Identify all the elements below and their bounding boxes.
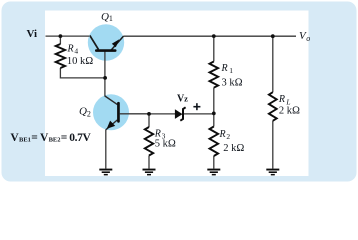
svg-text:BE1: BE1: [19, 136, 31, 143]
svg-text:2 kΩ: 2 kΩ: [223, 143, 244, 154]
svg-text:R: R: [67, 44, 74, 55]
svg-text:3 kΩ: 3 kΩ: [222, 77, 243, 88]
svg-text:Q: Q: [101, 11, 109, 23]
svg-text:R: R: [221, 63, 228, 74]
svg-text:1: 1: [109, 14, 113, 23]
svg-text:Q: Q: [79, 105, 87, 117]
svg-text:2 kΩ: 2 kΩ: [279, 105, 300, 116]
svg-text:R: R: [278, 94, 285, 105]
svg-text:10 kΩ: 10 kΩ: [67, 56, 93, 67]
svg-text:o: o: [306, 34, 310, 43]
svg-text:R: R: [219, 129, 226, 140]
svg-text:Vi: Vi: [27, 28, 38, 40]
svg-text:5 kΩ: 5 kΩ: [155, 138, 176, 149]
svg-text:z: z: [184, 94, 188, 104]
svg-text:2: 2: [87, 110, 91, 119]
svg-text:2: 2: [226, 132, 230, 141]
svg-text:1: 1: [229, 66, 233, 75]
svg-text:=: =: [31, 132, 38, 144]
svg-text:BE2: BE2: [49, 136, 61, 143]
svg-text:=: =: [61, 132, 68, 144]
svg-text:4: 4: [74, 47, 78, 56]
svg-text:0.7V: 0.7V: [69, 132, 91, 144]
